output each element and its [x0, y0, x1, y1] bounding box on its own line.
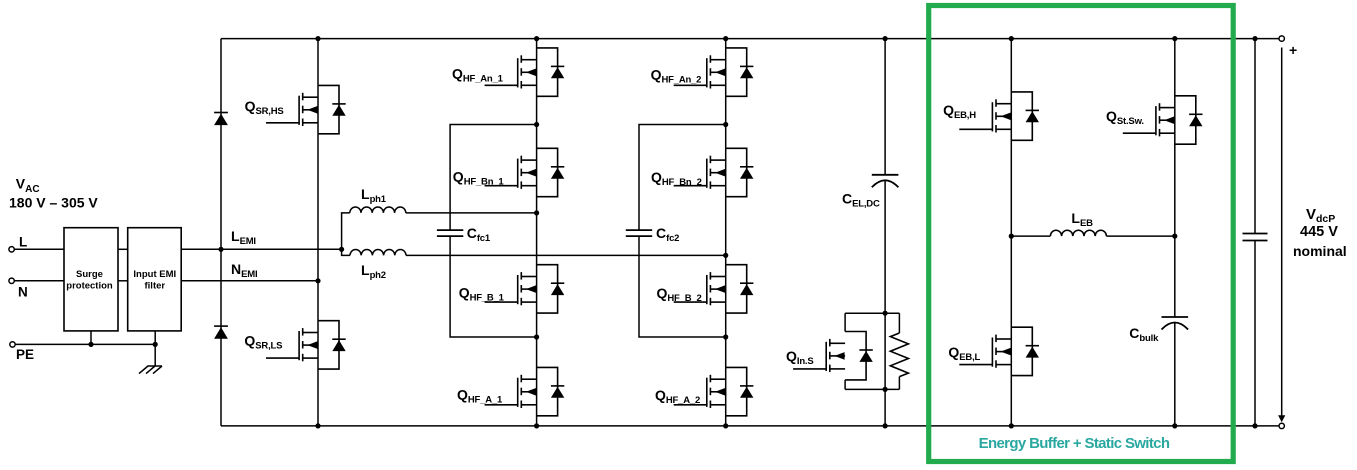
wire bottom DC bus — [221, 425, 1282, 427]
mosfet Q_HF_B_2 — [674, 265, 754, 313]
mosfet Q_EB,H — [959, 92, 1039, 140]
wire diode-leg rail — [220, 39, 222, 426]
mosfet Q_SR,HS — [266, 85, 346, 133]
junction PE / surge box — [88, 342, 93, 347]
wire surge protection PE stub — [90, 331, 92, 345]
terminal - output — [1279, 423, 1284, 428]
svg-text:protection: protection — [66, 281, 113, 292]
wire leg1 flying-cap branch — [450, 125, 536, 338]
wire EMI filter PE stub — [154, 331, 156, 345]
junction N_EMI / Q_SR rail — [315, 278, 320, 283]
wire L_ph2 to leg2 node — [406, 254, 726, 256]
node N_EMI — [181, 280, 318, 282]
capacitor C_out — [1243, 234, 1268, 241]
green highlight box Energy Buffer + Static Switch — [929, 6, 1233, 462]
mosfet Q_HF_Bn_2 — [674, 148, 754, 196]
svg-text:Input EMI: Input EMI — [133, 269, 176, 280]
mosfet Q_EB,L — [959, 327, 1039, 375]
mosfet Q_HF_B_1 — [485, 265, 565, 313]
wire Q_SR rail — [317, 39, 319, 426]
junction leg2 node3 — [723, 334, 728, 339]
wire L input to surge protection — [14, 248, 64, 250]
V_dcP voltage arrow — [1281, 48, 1283, 418]
ground symbol — [139, 344, 162, 373]
svg-text:filter: filter — [145, 281, 166, 292]
wire leg2 axis — [725, 39, 727, 426]
wire surge protection to EMI filter (L) — [118, 248, 128, 250]
diode D_L,HS — [214, 113, 228, 126]
svg-text:+: + — [1289, 42, 1297, 58]
resistor R_inrush — [890, 333, 908, 377]
svg-text:Surge: Surge — [76, 269, 103, 280]
junction L_EMI / phase inductors — [339, 247, 344, 252]
mosfet Q_HF_A_2 — [674, 367, 754, 415]
mosfet Q_SR,LS — [266, 321, 346, 369]
terminal L — [9, 247, 14, 252]
wire Q_In,S parallel-block top — [845, 312, 899, 314]
wire static switch / C_bulk rail — [1174, 39, 1176, 426]
svg-text:L: L — [19, 235, 27, 250]
svg-text:nominal: nominal — [1293, 243, 1347, 259]
terminal N — [9, 278, 14, 283]
junction L_EMI / diode rail — [218, 247, 223, 252]
wire C_EL,DC rail — [884, 39, 886, 426]
wire L_EMI to L_ph1 — [342, 213, 350, 249]
junction leg1 phase node — [534, 210, 539, 215]
junction dots top bus — [315, 36, 1257, 41]
wire Q_In,S mosfet branch — [844, 313, 846, 389]
junction Q_In,S top — [883, 311, 888, 316]
mosfet Q_HF_Bn_1 — [485, 148, 565, 196]
wire surge protection to EMI filter (N) — [118, 280, 128, 282]
capacitor C_EL,DC — [872, 175, 899, 188]
wire leg2 flying-cap branch — [639, 125, 726, 338]
input EMI filter box — [128, 228, 182, 331]
capacitor C_bulk — [1162, 317, 1189, 330]
mosfet Q_In,S — [793, 332, 873, 380]
terminal + output — [1279, 36, 1284, 41]
junction leg2 node1 — [723, 122, 728, 127]
junction leg2 phase node — [723, 253, 728, 258]
wire Q_In,S parallel-block bottom — [845, 388, 899, 390]
wire L_EB right — [1106, 235, 1174, 237]
capacitor C_fc1 — [437, 230, 463, 236]
wire PE input line — [15, 343, 155, 345]
terminal PE — [10, 342, 15, 347]
junction leg1 node1 — [534, 122, 539, 127]
surge protection box — [64, 228, 118, 331]
junction L_EB left — [1009, 234, 1014, 239]
junction leg1 node3 — [534, 334, 539, 339]
wire L_EMI to L_ph2 — [342, 249, 350, 255]
svg-text:180 V – 305 V: 180 V – 305 V — [9, 195, 98, 211]
junction PE / EMI box ground — [153, 342, 158, 347]
wire energy buffer rail — [1010, 39, 1012, 426]
wire top DC bus — [221, 38, 1282, 40]
junction Q_In,S bottom — [883, 387, 888, 392]
svg-text:PE: PE — [16, 347, 34, 362]
mosfet Q_HF_An_2 — [674, 48, 754, 96]
capacitor C_fc2 — [626, 230, 652, 236]
svg-text:445 V: 445 V — [1300, 224, 1338, 240]
junction dots bottom bus — [315, 423, 1257, 428]
diode D_L,LS — [214, 326, 228, 339]
node L_EMI — [181, 248, 341, 250]
wire L_ph1 to leg1 node — [406, 212, 537, 214]
svg-text:Energy Buffer + Static Switch: Energy Buffer + Static Switch — [979, 435, 1170, 452]
wire N input to surge protection — [14, 280, 64, 282]
inductor L_ph2 — [350, 250, 406, 256]
inductor L_EB — [1050, 230, 1106, 236]
wire L_EB left — [1011, 235, 1050, 237]
mosfet Q_HF_A_1 — [485, 367, 565, 415]
wire output capacitor rail — [1254, 39, 1256, 426]
mosfet Q_HF_An_1 — [485, 48, 565, 96]
junction L_EB right — [1172, 234, 1177, 239]
wire leg1 axis — [536, 39, 538, 426]
wire inrush resistor branch — [898, 313, 900, 389]
inductor L_ph1 — [350, 207, 406, 213]
svg-text:N: N — [18, 285, 28, 300]
mosfet Q_St.Sw. — [1123, 96, 1203, 144]
